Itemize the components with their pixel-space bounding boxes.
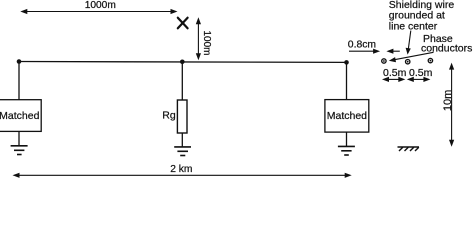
resistor Rg: [162, 100, 187, 133]
dimension 2 km: [13, 164, 352, 178]
dimension 1000m: [20, 0, 177, 14]
wire left vertical: [18, 62, 20, 101]
node right (junction dot): [344, 60, 349, 65]
node center (junction dot): [180, 60, 185, 65]
node left (junction dot): [17, 59, 22, 64]
wire right vertical: [346, 62, 348, 99]
svg-text:Rg: Rg: [162, 110, 176, 122]
phase conductor left: [382, 59, 386, 63]
phase conductor / shield center: [406, 60, 410, 64]
lightning strike point X: [178, 18, 188, 29]
matched termination left box: [0, 100, 41, 132]
wire right ground stub: [346, 132, 348, 146]
matched termination right box: [325, 100, 369, 133]
phase conductor right: [428, 58, 432, 62]
ground center: [174, 147, 191, 156]
pointer arrow from shielding label: [406, 31, 411, 55]
label 0.5m right: [409, 67, 433, 79]
wire main line: [19, 61, 347, 64]
label shielding wire grounded at line center: [389, 0, 455, 33]
svg-text:1000m: 1000m: [85, 0, 116, 11]
svg-text:Matched: Matched: [327, 110, 367, 122]
wire left ground stub: [18, 131, 20, 145]
pointer arrow from phase conductors label: [389, 52, 434, 62]
dimension 0.8cm: [348, 40, 400, 54]
label 0.5m left: [383, 67, 407, 79]
ground left: [11, 146, 28, 155]
svg-text:0.5m: 0.5m: [409, 67, 433, 79]
wire center ground stub: [181, 133, 183, 147]
label phase conductors: [421, 33, 472, 54]
svg-text:2 km: 2 km: [170, 164, 192, 175]
dimension 10m: [442, 63, 454, 147]
wire center vertical: [181, 62, 183, 100]
svg-text:Matched: Matched: [0, 110, 40, 122]
svg-text:0.8cm: 0.8cm: [348, 40, 376, 51]
svg-text:0.5m: 0.5m: [383, 67, 407, 79]
dimension 100m: [196, 17, 212, 60]
svg-text:line center: line center: [389, 21, 438, 33]
dimension 0.5m right arrow: [407, 77, 431, 82]
ground right: [338, 146, 355, 155]
earth ground hatching: [398, 147, 420, 151]
svg-text:10m: 10m: [442, 90, 454, 111]
svg-text:conductors: conductors: [421, 42, 472, 54]
dimension 0.5m left arrow: [382, 77, 405, 82]
svg-text:100m: 100m: [201, 30, 212, 55]
